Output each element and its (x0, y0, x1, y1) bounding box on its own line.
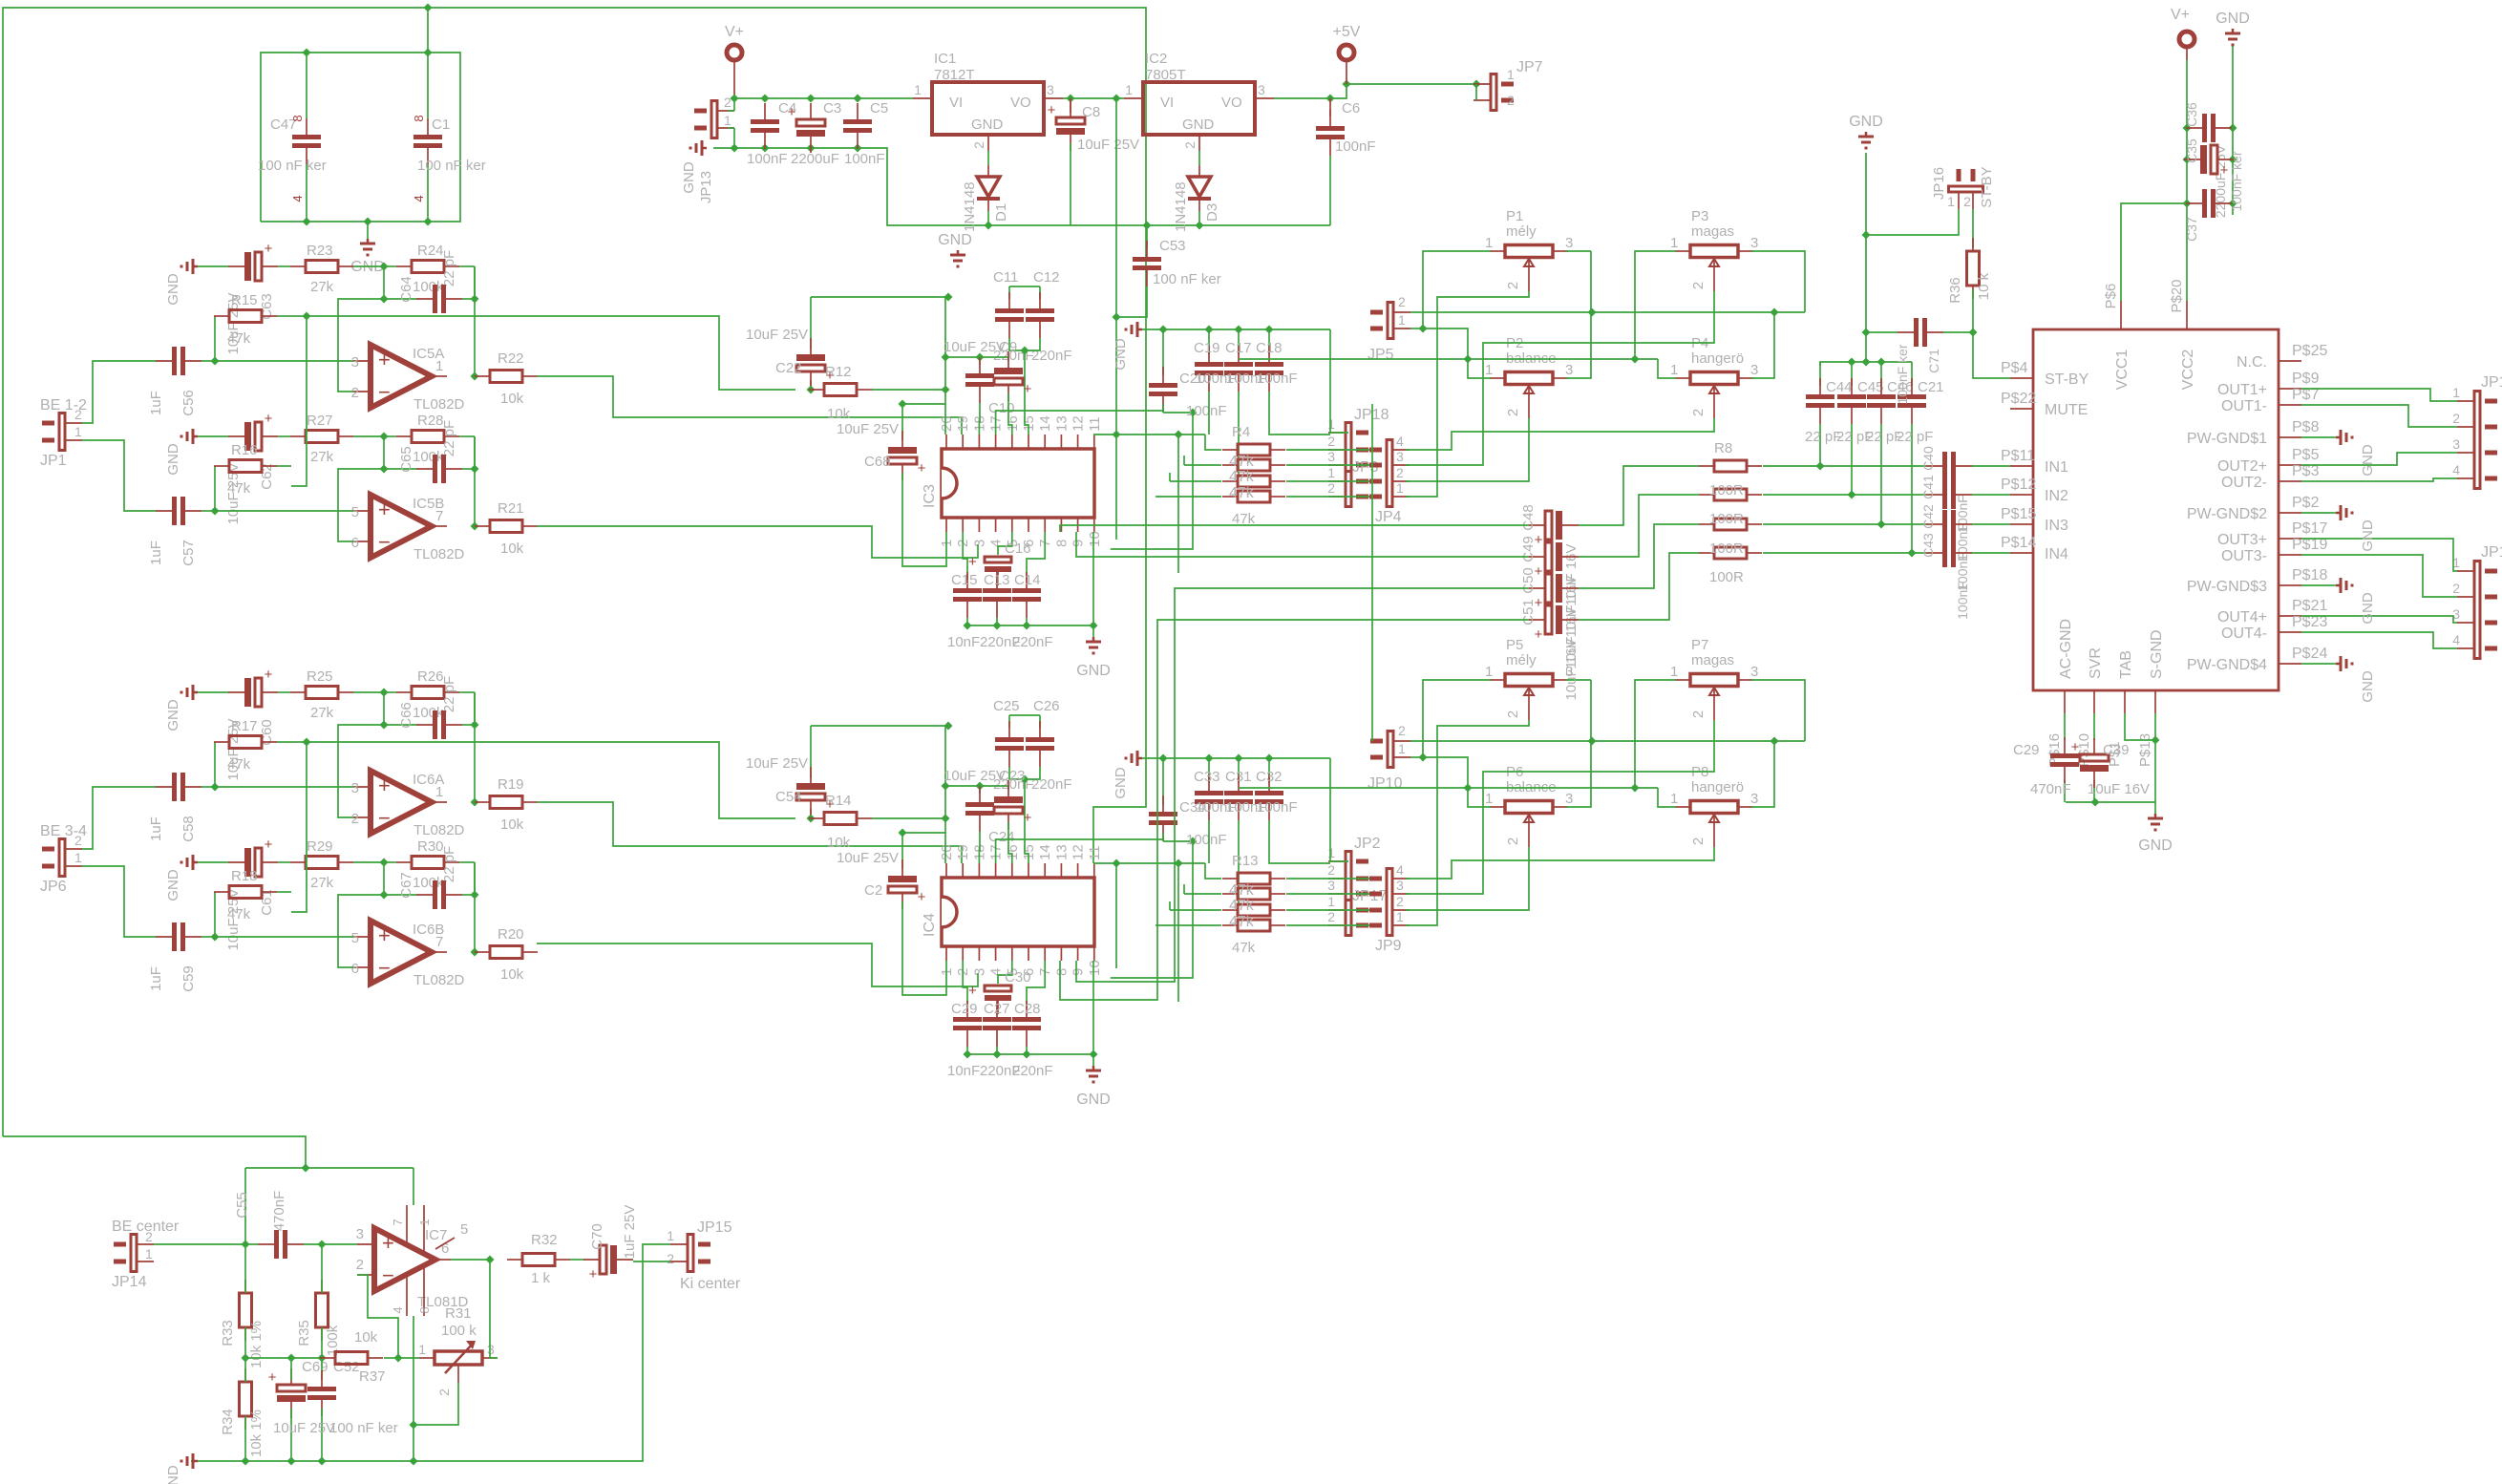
resistor R12 10k (809, 364, 950, 422)
svg-text:+: + (2220, 162, 2229, 179)
potentiometer P1 mély (1485, 208, 1573, 291)
svg-text:+: + (378, 498, 391, 521)
capacitor C61 (198, 837, 278, 951)
resistor R18 47k (214, 868, 291, 937)
svg-text:47k: 47k (1229, 454, 1255, 470)
capacitor C5 (843, 100, 888, 167)
svg-text:100 nF ker: 100 nF ker (417, 158, 486, 174)
wire rin B (291, 742, 307, 912)
wire pot pin1 net (1410, 251, 1491, 378)
svg-text:8: 8 (1053, 968, 1070, 976)
svg-text:+: + (1535, 626, 1543, 643)
svg-text:TL082D: TL082D (413, 546, 465, 562)
capacitor C57 1uF (148, 497, 353, 566)
svg-text:1uF 25V: 1uF 25V (622, 1205, 638, 1260)
svg-text:C44: C44 (1826, 379, 1853, 395)
svg-text:C29: C29 (951, 1001, 978, 1017)
svg-text:2: 2 (356, 1257, 364, 1273)
wire R19 out (537, 802, 962, 863)
capacitor C39 10uF (2071, 738, 2150, 797)
svg-text:5: 5 (460, 1221, 468, 1238)
capacitor C15 10nF (947, 532, 982, 650)
capacitor C1 (412, 53, 486, 222)
svg-text:1: 1 (1125, 82, 1133, 97)
wire top bus (245, 1168, 413, 1244)
capacitor C3 (788, 100, 842, 167)
svg-text:OUT4-: OUT4- (2221, 625, 2267, 642)
svg-text:+: + (1024, 381, 1032, 397)
pin P$6 VCC1 (2103, 284, 2131, 391)
resistor R29 27k (278, 838, 384, 891)
svg-text:2: 2 (1690, 837, 1707, 845)
wire ic7 bottom pins (413, 1316, 414, 1461)
resistor stack R13 47k (1222, 853, 1285, 956)
svg-text:C27: C27 (984, 1001, 1010, 1017)
wire P8 wiper (1406, 847, 1714, 879)
pin P$17 OUT3+ (2217, 520, 2327, 548)
svg-text:GND: GND (1076, 1092, 1111, 1108)
wire rin A (291, 312, 311, 321)
svg-text:R26: R26 (417, 668, 444, 685)
IC2 7805 regulator (1124, 51, 1274, 151)
svg-text:100 nF ker: 100 nF ker (329, 1420, 398, 1436)
label 100R (1709, 541, 1744, 557)
svg-text:8: 8 (1053, 540, 1070, 547)
pin P$16 AC-GND (2046, 619, 2074, 767)
wire C47/C1 box (261, 8, 460, 226)
op-amp IC6B (351, 921, 465, 988)
svg-text:GND: GND (1113, 767, 1129, 799)
svg-text:1: 1 (1398, 741, 1406, 756)
capacitor C68 (837, 400, 946, 567)
svg-text:GND: GND (2138, 837, 2173, 854)
svg-text:2: 2 (1690, 409, 1707, 416)
svg-text:1: 1 (1396, 909, 1404, 924)
ground below C47/C1 (350, 222, 385, 275)
svg-text:GND: GND (1076, 663, 1111, 679)
svg-text:1uF: 1uF (148, 391, 164, 415)
capacitor C56 1uF (148, 347, 353, 416)
wire out node B (471, 862, 479, 957)
resistor R9 100R (1699, 489, 1762, 500)
svg-text:C55: C55 (234, 1192, 250, 1219)
ground GND (165, 855, 198, 901)
resistor R8 100R (1699, 460, 1762, 472)
svg-text:C21: C21 (1918, 379, 1944, 395)
svg-text:C69: C69 (302, 1359, 329, 1375)
wire right pot pin1 (1239, 251, 1676, 364)
svg-text:C42: C42 (1920, 504, 1936, 529)
wire be to capA (82, 787, 156, 849)
svg-text:1: 1 (1327, 416, 1335, 432)
svg-text:470nF: 470nF (271, 1191, 287, 1232)
resistor R25 27k (278, 668, 384, 721)
svg-text:OUT1-: OUT1- (2221, 398, 2267, 414)
svg-text:C14: C14 (1014, 572, 1041, 588)
pin P$23 OUT4- (2221, 614, 2327, 642)
svg-text:VI: VI (949, 95, 963, 111)
capacitor C48 10uF (1520, 504, 1580, 605)
wire 220nF bracket (1009, 715, 1040, 863)
capacitor C66 22pF (380, 692, 479, 739)
svg-text:100k: 100k (413, 705, 444, 721)
svg-text:10uF 25V: 10uF 25V (837, 421, 899, 437)
resistor R36 10k (1947, 234, 1992, 332)
capacitor C17 100nF (1224, 329, 1267, 392)
svg-text:C16: C16 (1005, 541, 1031, 557)
capacitor C50 10uF (1520, 567, 1580, 668)
svg-text:11: 11 (1087, 416, 1103, 432)
wire in3 (1763, 523, 2010, 525)
pin P$20 VCC2 (2169, 279, 2196, 390)
svg-text:AC-GND: AC-GND (2058, 619, 2074, 679)
potentiometer P5 mély (1485, 637, 1573, 720)
svg-text:470nF: 470nF (2030, 781, 2071, 797)
svg-text:R31: R31 (445, 1305, 472, 1322)
svg-text:1uF: 1uF (148, 816, 164, 841)
svg-text:C40: C40 (1920, 446, 1936, 471)
connector JP10 (1368, 723, 1410, 792)
svg-text:100R: 100R (1709, 511, 1744, 527)
svg-text:3: 3 (351, 354, 359, 371)
svg-text:−: − (378, 380, 391, 404)
wire OUT3- (2301, 555, 2457, 597)
capacitor C29 10nF (947, 961, 982, 1079)
capacitor C63 (198, 241, 278, 355)
svg-text:V+: V+ (2171, 7, 2190, 23)
wire be to capB (82, 440, 156, 511)
svg-text:R4: R4 (1232, 424, 1250, 440)
wire fb to -input B (338, 469, 384, 541)
capacitor C24 (945, 782, 1015, 864)
capacitor C33 100nF (1194, 758, 1237, 820)
pin 5 stub (435, 1221, 468, 1249)
capacitor C8 (1048, 98, 1139, 225)
svg-text:3: 3 (971, 540, 987, 547)
svg-text:P3: P3 (1691, 208, 1708, 224)
svg-text:3: 3 (1565, 235, 1573, 251)
ground GND (165, 429, 198, 476)
wire 22pF rail (1820, 358, 1912, 367)
wire mid bus (245, 1354, 322, 1363)
svg-text:1: 1 (2452, 385, 2460, 400)
svg-text:C68: C68 (864, 454, 891, 470)
diode D3 (1173, 151, 1220, 232)
connector JP2 (1327, 836, 1380, 905)
svg-text:P$6: P$6 (2103, 284, 2119, 309)
svg-text:4: 4 (2452, 632, 2460, 647)
svg-text:R27: R27 (307, 413, 333, 429)
ground PW sym (2336, 505, 2376, 552)
svg-text:10uF 25V: 10uF 25V (944, 768, 1006, 784)
svg-text:1: 1 (1327, 894, 1335, 909)
wire OUT1- (2301, 405, 2457, 427)
capacitor C67 22pF (380, 862, 479, 909)
svg-text:P$5: P$5 (2292, 447, 2320, 463)
capacitor C21 22pF (1897, 362, 1944, 558)
svg-text:P$4: P$4 (2001, 360, 2028, 376)
pin P$22 MUTE (2001, 391, 2088, 418)
svg-text:10k: 10k (827, 406, 851, 422)
wire out node A (471, 266, 479, 381)
wire jp16 (1866, 209, 1973, 235)
capacitor C45 22pF (1836, 362, 1884, 499)
wire in2 (1763, 494, 2010, 496)
svg-text:ST-BY: ST-BY (2045, 371, 2089, 388)
ground PW sym (2336, 656, 2376, 703)
svg-text:P$21: P$21 (2292, 598, 2327, 614)
svg-text:3: 3 (487, 1342, 495, 1357)
svg-text:2200uF: 2200uF (791, 151, 839, 167)
wire pin17 (996, 839, 1163, 863)
capacitor C53 (1116, 225, 1221, 317)
svg-text:R35: R35 (296, 1320, 312, 1346)
svg-text:11: 11 (1087, 845, 1103, 860)
svg-text:TAB: TAB (2118, 650, 2134, 679)
svg-text:C30: C30 (1005, 969, 1031, 986)
svg-text:+: + (918, 889, 926, 905)
svg-text:GND: GND (1113, 338, 1129, 371)
svg-text:GND: GND (165, 443, 181, 476)
wire v+ pin20 (942, 297, 950, 435)
svg-text:1: 1 (435, 784, 443, 800)
svg-text:2: 2 (436, 1389, 452, 1396)
svg-text:hangerö: hangerö (1691, 779, 1744, 795)
wire P5 wiper (1406, 720, 1529, 925)
connector JP3 (1327, 459, 1378, 508)
svg-text:1: 1 (1670, 664, 1678, 680)
wire v+ pin20 (942, 726, 950, 863)
svg-text:5: 5 (351, 930, 359, 946)
capacitor C10 (945, 353, 1015, 435)
svg-text:27k: 27k (310, 705, 334, 721)
svg-text:C11: C11 (993, 269, 1018, 286)
svg-text:C18: C18 (1256, 340, 1283, 356)
svg-text:C25: C25 (993, 698, 1020, 714)
wire c19 risers (1209, 820, 1330, 906)
svg-text:100nF: 100nF (1955, 582, 1970, 620)
capacitor C69 10uF (268, 1358, 329, 1461)
svg-text:6: 6 (351, 961, 359, 977)
svg-text:2: 2 (1690, 710, 1707, 718)
svg-text:C28: C28 (1014, 1001, 1041, 1017)
ground rail IC4 (1113, 751, 1330, 799)
svg-text:P$12: P$12 (2001, 477, 2036, 493)
svg-text:10k: 10k (500, 391, 524, 407)
svg-text:20: 20 (939, 415, 955, 432)
connector JP4 (1369, 434, 1410, 525)
wire OUT4+ (2301, 616, 2457, 623)
svg-text:C39: C39 (2103, 742, 2130, 758)
capacitor C60 (198, 667, 278, 781)
IC IC4 tone control (922, 844, 1103, 976)
svg-text:VO: VO (1010, 95, 1031, 111)
svg-text:47k: 47k (227, 480, 251, 497)
V+ pad (725, 24, 744, 98)
wire rstack row (1286, 496, 1369, 498)
svg-text:100 nF ker: 100 nF ker (1153, 271, 1221, 287)
svg-text:7: 7 (391, 1219, 405, 1225)
capacitor C23 (944, 768, 1032, 863)
svg-text:PW-GND$3: PW-GND$3 (2187, 579, 2267, 595)
capacitor C58 1uF (148, 773, 353, 842)
capacitor C19 100nF (1194, 329, 1237, 392)
svg-text:GND: GND (2360, 444, 2376, 477)
svg-text:3: 3 (1750, 235, 1758, 251)
resistor R23 27k (278, 243, 384, 295)
wire OUT1+ (2301, 389, 2457, 401)
capacitor C4 (747, 100, 796, 167)
svg-text:P7: P7 (1691, 637, 1708, 653)
wire mid vertical a (1371, 404, 1373, 741)
capacitor C25 220nF (993, 698, 1034, 793)
svg-text:P$18: P$18 (2292, 567, 2327, 583)
svg-text:JP13: JP13 (698, 171, 714, 203)
wire OUT2+ (2301, 453, 2457, 465)
capacitor C71 100nF (1866, 318, 1978, 405)
resistor stack R4 47k (1222, 424, 1285, 527)
svg-text:100nF ker: 100nF ker (1895, 344, 1910, 404)
wire rstack left bus (1093, 859, 1221, 926)
svg-text:Ki center: Ki center (680, 1276, 741, 1292)
pin P$10 SVR (2076, 647, 2104, 767)
svg-text:19: 19 (955, 844, 971, 860)
svg-text:2: 2 (971, 141, 986, 149)
ground PW sym (2336, 578, 2376, 625)
svg-text:MUTE: MUTE (2045, 402, 2088, 418)
wire P4 wiper (1406, 418, 1714, 450)
wire P3 wiper (1406, 291, 1714, 465)
svg-text:+: + (265, 241, 273, 257)
pin P$8 PW-GND$1 (2187, 419, 2320, 447)
svg-text:2: 2 (1327, 862, 1335, 878)
svg-text:C32: C32 (1256, 769, 1283, 785)
capacitor C11 220nF (993, 269, 1034, 364)
capacitor C40 100nF (1920, 446, 1972, 533)
svg-text:4: 4 (290, 195, 305, 201)
svg-text:10uF 16V: 10uF 16V (1563, 638, 1580, 700)
svg-text:7805T: 7805T (1145, 67, 1186, 83)
wire rail to jumper pin1 (1330, 758, 1348, 861)
potentiometer P8 hangerö (1670, 764, 1758, 847)
capacitor C62 (198, 411, 278, 525)
svg-text:C1: C1 (432, 117, 450, 133)
svg-text:2: 2 (351, 811, 359, 827)
potentiometer P3 magas (1670, 208, 1758, 291)
wire rstack row (1286, 449, 1369, 451)
wire V+ right (2121, 98, 2192, 301)
wire rail to jumper pin1 (1330, 329, 1348, 433)
svg-text:10k: 10k (500, 966, 524, 983)
svg-text:3: 3 (1047, 82, 1054, 97)
svg-text:mély: mély (1506, 652, 1537, 668)
potentiometer P2 balance (1485, 335, 1573, 418)
svg-text:JP7: JP7 (1516, 59, 1543, 75)
svg-text:magas: magas (1691, 223, 1734, 240)
svg-text:JP6: JP6 (40, 879, 67, 895)
svg-text:2: 2 (1327, 434, 1335, 449)
svg-text:JP11: JP11 (2481, 544, 2502, 561)
resistor R21 10k (475, 500, 538, 557)
svg-text:C71: C71 (1926, 349, 1941, 373)
ground rail IC3 (1113, 322, 1330, 371)
svg-text:1N4148: 1N4148 (962, 181, 978, 232)
svg-text:1: 1 (1485, 235, 1493, 251)
svg-text:GND: GND (2360, 592, 2376, 625)
ground GND (165, 259, 198, 306)
svg-text:C50: C50 (1520, 567, 1537, 594)
svg-text:2: 2 (1690, 282, 1707, 289)
V+ pad right (2171, 7, 2195, 98)
svg-text:GND: GND (165, 869, 181, 901)
wire top border net (3, 4, 1146, 1137)
svg-text:+: + (918, 460, 926, 477)
svg-text:100nF ker: 100nF ker (2229, 151, 2244, 211)
+5V pad (1333, 24, 1361, 84)
svg-text:S-GND: S-GND (2149, 629, 2165, 679)
wire pin17 (996, 411, 1163, 435)
svg-text:100nF: 100nF (1335, 138, 1376, 155)
svg-text:10k: 10k (500, 816, 524, 833)
wire rstack left bus (1093, 431, 1221, 498)
wire C50 feed (1076, 588, 1529, 982)
svg-text:3: 3 (1565, 362, 1573, 378)
wire pot input bus (1410, 251, 1805, 378)
resistor R24 100k (380, 243, 476, 295)
svg-text:3: 3 (2452, 436, 2460, 452)
capacitor C42 100nF (1920, 504, 1972, 591)
svg-text:R19: R19 (498, 776, 524, 793)
ground near D1 (938, 232, 972, 266)
svg-text:R29: R29 (307, 838, 333, 855)
svg-text:2: 2 (74, 407, 82, 422)
svg-text:OUT2-: OUT2- (2221, 475, 2267, 491)
capacitor C20 100nF (1149, 329, 1227, 419)
svg-text:3: 3 (1750, 362, 1758, 378)
svg-text:7: 7 (435, 934, 443, 950)
svg-text:+: + (1024, 810, 1032, 826)
resistor R26 100k (380, 668, 476, 721)
pin P$14 IN4 (2001, 535, 2068, 562)
wire R15 to R12 (307, 316, 795, 390)
connector JP7 (1474, 59, 1543, 112)
svg-text:R13: R13 (1232, 853, 1259, 869)
svg-text:R15: R15 (231, 292, 258, 308)
svg-text:2: 2 (145, 1229, 153, 1244)
svg-text:2: 2 (1182, 141, 1198, 149)
svg-text:P$13: P$13 (2137, 733, 2153, 767)
svg-text:4: 4 (1396, 862, 1404, 878)
svg-text:OUT1+: OUT1+ (2217, 382, 2267, 398)
svg-text:TL082D: TL082D (413, 396, 465, 413)
capacitor C12 220nF (1026, 269, 1072, 364)
capacitor C44 22pF (1805, 362, 1853, 471)
wire rstack row (1286, 464, 1369, 466)
svg-text:+: + (968, 554, 977, 570)
resistor R17 47k (214, 718, 291, 787)
svg-text:C65: C65 (398, 446, 414, 473)
svg-text:+: + (268, 1369, 277, 1386)
svg-text:+: + (265, 837, 273, 853)
svg-text:C15: C15 (951, 572, 978, 588)
svg-text:14: 14 (1037, 415, 1053, 432)
pin P$11 IN1 (2001, 448, 2068, 476)
svg-text:1: 1 (1507, 67, 1515, 82)
svg-text:R17: R17 (231, 718, 258, 734)
wire wipers (0, 0, 1, 1)
wire outcap right (1579, 466, 1699, 620)
wire R20 out (537, 943, 978, 986)
